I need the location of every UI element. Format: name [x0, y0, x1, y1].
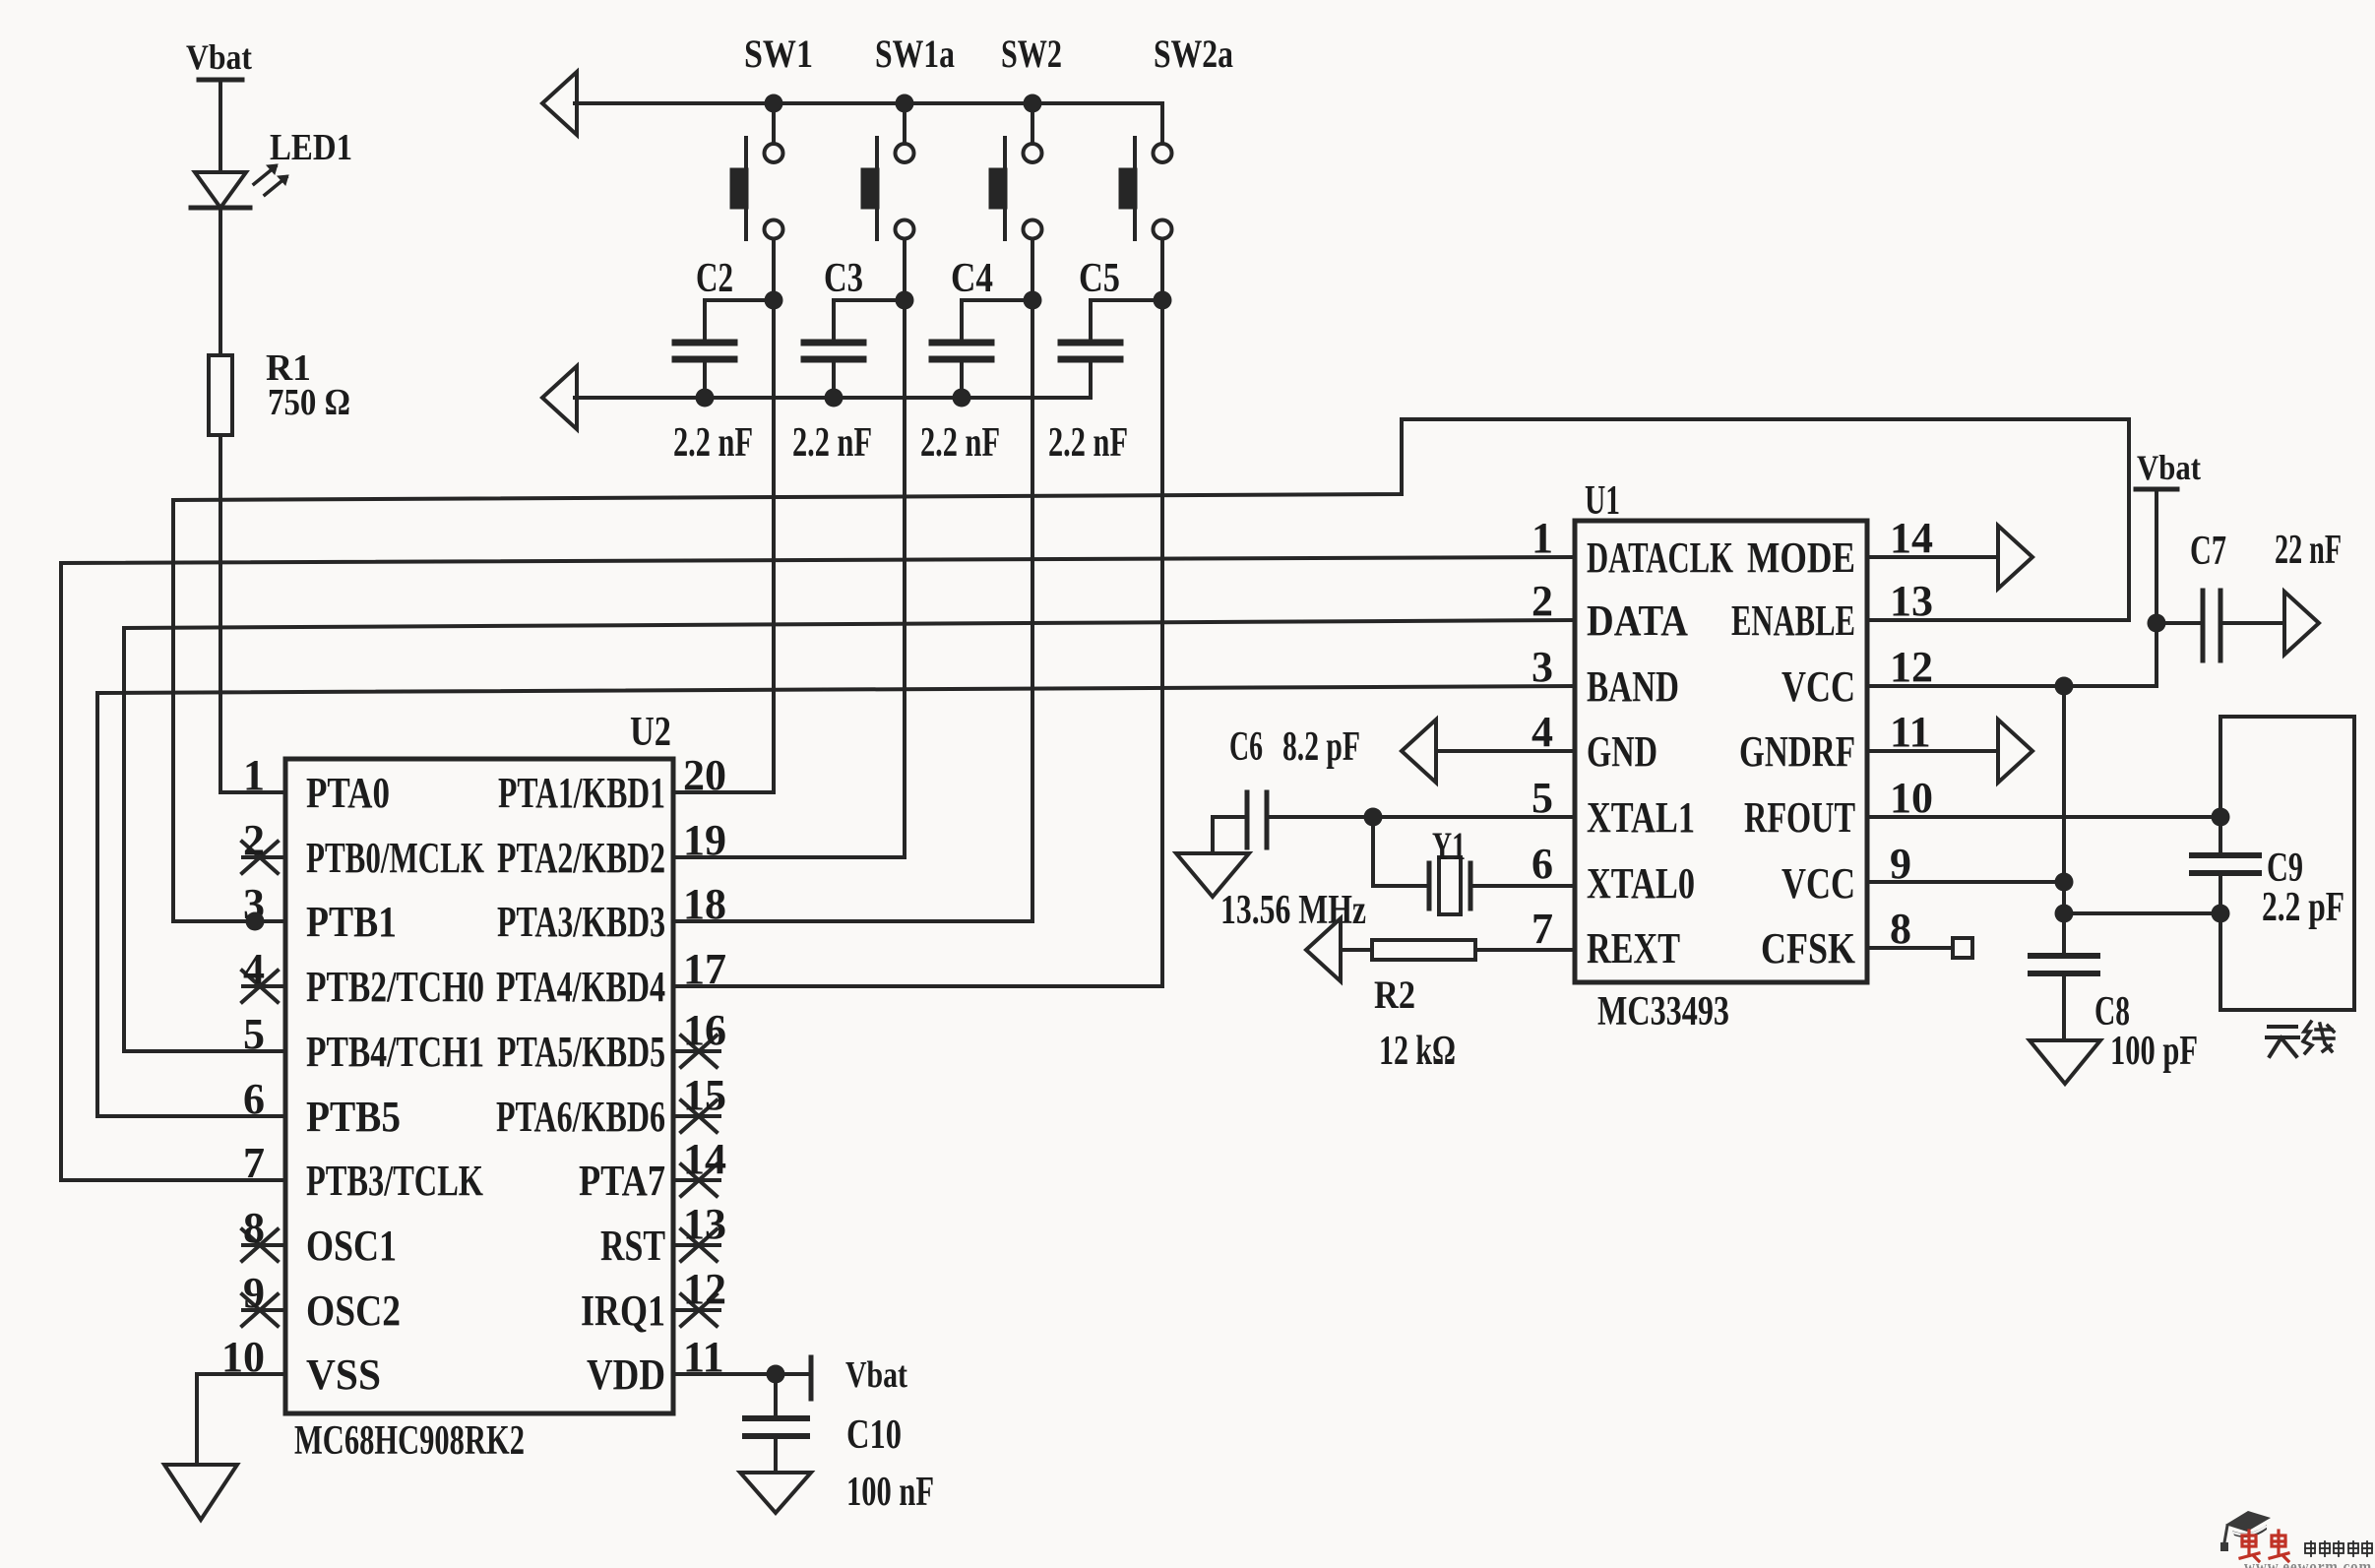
svg-text:C5: C5 [1079, 256, 1120, 301]
svg-text:2.2 nF: 2.2 nF [673, 420, 753, 466]
svg-text:6: 6 [1531, 840, 1553, 888]
svg-text:14: 14 [683, 1135, 726, 1183]
svg-text:14: 14 [1890, 514, 1933, 562]
svg-text:PTB1: PTB1 [306, 898, 397, 946]
svg-text:2.2 nF: 2.2 nF [1048, 420, 1128, 466]
svg-text:22 nF: 22 nF [2275, 528, 2342, 573]
svg-text:C7: C7 [2190, 529, 2226, 574]
svg-text:PTA3/KBD3: PTA3/KBD3 [497, 898, 665, 946]
svg-text:12 kΩ: 12 kΩ [1379, 1029, 1456, 1074]
svg-text:2.2 nF: 2.2 nF [792, 420, 872, 466]
svg-text:7: 7 [1531, 905, 1553, 953]
svg-text:16: 16 [683, 1006, 726, 1054]
svg-text:8: 8 [1890, 905, 1911, 953]
svg-text:ENABLE: ENABLE [1731, 596, 1855, 645]
svg-text:5: 5 [1531, 774, 1553, 822]
svg-text:Vbat: Vbat [186, 37, 252, 77]
svg-text:2: 2 [243, 816, 265, 864]
svg-text:BAND: BAND [1587, 662, 1679, 711]
svg-text:REXT: REXT [1587, 924, 1680, 972]
svg-text:MC68HC908RK2: MC68HC908RK2 [294, 1418, 525, 1464]
svg-text:RFOUT: RFOUT [1744, 793, 1855, 842]
svg-text:VCC: VCC [1781, 859, 1855, 908]
svg-text:SW2a: SW2a [1154, 31, 1233, 76]
svg-text:3: 3 [1531, 643, 1553, 691]
svg-text:DATACLK: DATACLK [1587, 533, 1733, 582]
svg-text:100 nF: 100 nF [846, 1470, 934, 1515]
svg-text:PTA7: PTA7 [579, 1157, 665, 1205]
svg-text:MODE: MODE [1747, 533, 1855, 582]
svg-text:C10: C10 [846, 1412, 902, 1458]
svg-text:C3: C3 [824, 256, 863, 301]
svg-text:Y1: Y1 [1432, 824, 1466, 868]
svg-text:13: 13 [1890, 577, 1933, 625]
svg-text:C6: C6 [1229, 724, 1263, 770]
svg-text:100 pF: 100 pF [2110, 1029, 2198, 1074]
svg-text:SW1a: SW1a [875, 31, 955, 76]
svg-text:2.2 pF: 2.2 pF [2262, 885, 2344, 930]
svg-text:10: 10 [1890, 774, 1933, 822]
svg-text:1: 1 [243, 751, 265, 799]
svg-text:15: 15 [683, 1071, 726, 1119]
svg-text:U1: U1 [1585, 478, 1620, 524]
svg-text:C2: C2 [696, 256, 733, 301]
svg-text:PTA0: PTA0 [306, 769, 390, 817]
svg-text:PTA6/KBD6: PTA6/KBD6 [496, 1093, 665, 1141]
svg-text:DATA: DATA [1587, 596, 1688, 645]
svg-text:RST: RST [600, 1222, 665, 1270]
svg-text:SW2: SW2 [1001, 31, 1062, 76]
svg-text:PTB0/MCLK: PTB0/MCLK [306, 834, 484, 882]
svg-text:MC33493: MC33493 [1597, 989, 1729, 1035]
svg-text:PTA1/KBD1: PTA1/KBD1 [498, 769, 665, 817]
svg-text:4: 4 [1531, 708, 1553, 756]
svg-text:8: 8 [243, 1204, 265, 1252]
svg-text:9: 9 [243, 1269, 265, 1317]
svg-text:PTB3/TCLK: PTB3/TCLK [306, 1157, 483, 1205]
svg-text:PTB2/TCH0: PTB2/TCH0 [306, 963, 484, 1011]
svg-text:LED1: LED1 [270, 127, 352, 168]
svg-text:SW1: SW1 [744, 31, 813, 76]
svg-text:XTAL0: XTAL0 [1587, 859, 1695, 908]
svg-text:2: 2 [1531, 577, 1553, 625]
svg-text:VCC: VCC [1781, 662, 1855, 711]
svg-text:www.eeworm.com: www.eeworm.com [2244, 1557, 2372, 1568]
svg-text:2.2 nF: 2.2 nF [920, 420, 1000, 466]
svg-text:XTAL1: XTAL1 [1587, 793, 1695, 842]
svg-text:VDD: VDD [587, 1350, 665, 1399]
svg-text:CFSK: CFSK [1761, 924, 1855, 972]
svg-text:PTB4/TCH1: PTB4/TCH1 [306, 1028, 484, 1076]
svg-text:U2: U2 [630, 710, 671, 755]
svg-text:11: 11 [1890, 708, 1931, 756]
svg-text:C4: C4 [951, 256, 993, 301]
svg-text:12: 12 [1890, 643, 1933, 691]
svg-text:PTA5/KBD5: PTA5/KBD5 [497, 1028, 665, 1076]
svg-text:4: 4 [243, 945, 265, 993]
svg-text:GND: GND [1587, 727, 1657, 776]
svg-text:OSC1: OSC1 [306, 1222, 397, 1270]
svg-text:IRQ1: IRQ1 [581, 1286, 665, 1335]
svg-text:12: 12 [683, 1265, 726, 1313]
svg-text:13.56 MHz: 13.56 MHz [1220, 888, 1366, 933]
svg-text:OSC2: OSC2 [306, 1286, 401, 1335]
svg-text:13: 13 [683, 1200, 726, 1248]
svg-text:VSS: VSS [306, 1350, 381, 1399]
svg-text:Vbat: Vbat [845, 1354, 907, 1396]
svg-text:Vbat: Vbat [2137, 448, 2201, 487]
svg-text:1: 1 [1531, 514, 1553, 562]
svg-text:8.2 pF: 8.2 pF [1282, 724, 1360, 770]
svg-text:PTA4/KBD4: PTA4/KBD4 [496, 963, 665, 1011]
svg-text:R2: R2 [1374, 972, 1415, 1017]
svg-text:PTB5: PTB5 [306, 1093, 401, 1141]
svg-text:750 Ω: 750 Ω [268, 382, 350, 423]
svg-text:PTA2/KBD2: PTA2/KBD2 [497, 834, 665, 882]
svg-text:GNDRF: GNDRF [1739, 727, 1855, 776]
